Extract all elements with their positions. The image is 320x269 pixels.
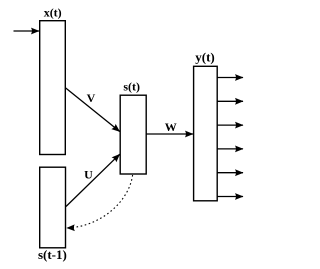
svg-text:x(t): x(t) [44,6,62,20]
svg-text:W: W [165,120,177,134]
svg-text:U: U [84,167,93,181]
svg-text:s(t-1): s(t-1) [38,247,67,262]
svg-text:y(t): y(t) [195,50,215,65]
svg-text:V: V [87,91,96,105]
svg-text:s(t): s(t) [123,80,140,94]
